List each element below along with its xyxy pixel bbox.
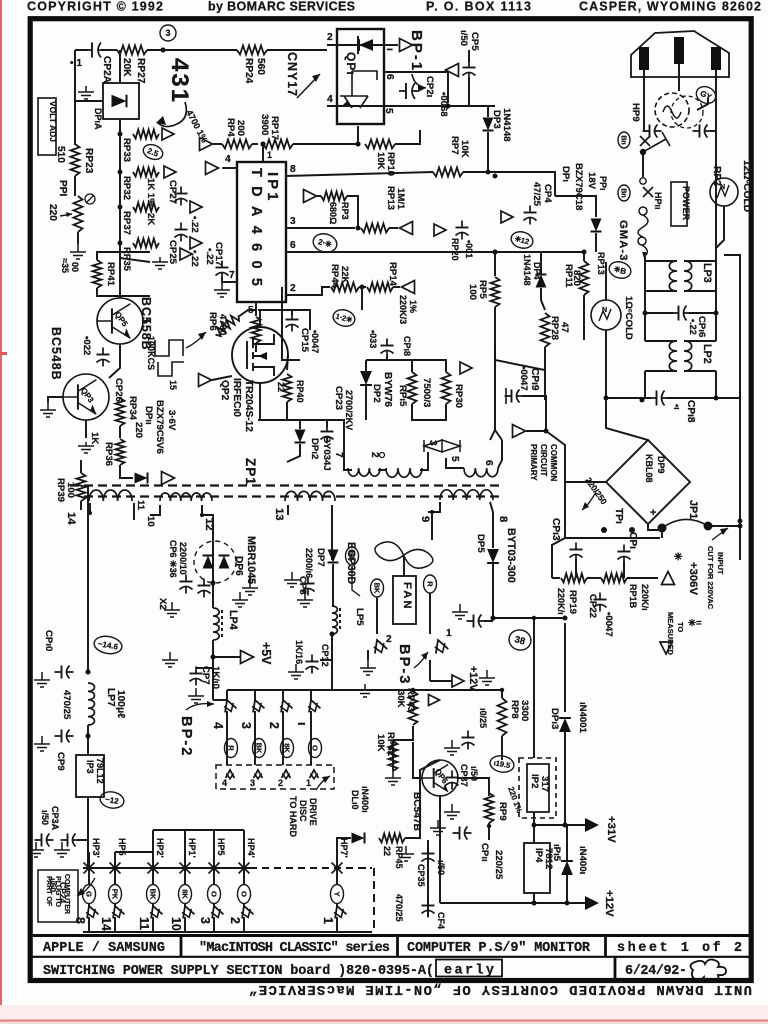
capacitor CP12 — [306, 655, 319, 674]
svg-text:GMA-3: GMA-3 — [617, 220, 629, 261]
svg-text:431: 431 — [166, 58, 193, 104]
svg-text:2: 2 — [290, 283, 296, 294]
capacitor CP15 — [286, 313, 299, 332]
node — [211, 581, 216, 586]
ground — [78, 442, 94, 453]
regulator IP3 — [76, 755, 104, 797]
balloon *12 — [509, 229, 534, 250]
wire — [114, 852, 116, 868]
ground — [28, 842, 44, 857]
phototransistor in QP1 — [340, 71, 377, 108]
bus — [227, 689, 311, 691]
wire — [644, 371, 646, 398]
connector pin BP-2 3 — [249, 698, 265, 714]
resistor RP27 — [117, 46, 147, 55]
resistor RP8 — [498, 698, 507, 736]
zener DP11 — [135, 473, 148, 484]
wire — [88, 904, 90, 906]
svg-text:LP3: LP3 — [701, 263, 713, 283]
wire — [331, 634, 333, 660]
wire — [440, 689, 502, 691]
scan edge pink band — [0, 1005, 768, 1020]
fuse link X — [643, 187, 653, 197]
resistor RP36 — [116, 439, 125, 465]
svg-text:ıN4001: ıN4001 — [577, 702, 588, 734]
hook arrow BP-2 — [186, 704, 214, 710]
svg-text:PPı: PPı — [598, 176, 608, 191]
wire — [392, 740, 394, 742]
wire — [147, 49, 237, 51]
wire — [583, 252, 585, 261]
wire — [540, 252, 542, 274]
wire — [392, 742, 394, 771]
LP4 core dash — [221, 610, 223, 638]
fuse link HP1' — [180, 863, 191, 874]
resistor RP30 — [442, 372, 451, 404]
node — [493, 174, 498, 179]
svg-text:RP8: RP8 — [509, 700, 520, 719]
pin 3 stub — [286, 227, 355, 229]
credit line (rotated) — [249, 981, 752, 997]
wire — [498, 440, 502, 468]
wire — [494, 252, 496, 276]
wire color BK — [346, 547, 359, 565]
wire — [336, 850, 338, 868]
right rail lower — [739, 526, 741, 560]
svg-text:ı/50: ı/50 — [40, 810, 50, 825]
diode DP14 — [112, 95, 127, 108]
svg-text:RP1B: RP1B — [628, 584, 638, 609]
bus top2 — [153, 829, 244, 831]
svg-text:DPı: DPı — [560, 166, 571, 182]
svg-text:10: 10 — [169, 917, 183, 931]
regulator IP4 — [524, 843, 550, 893]
resistor RP5 — [491, 277, 500, 307]
svg-text:RP23: RP23 — [83, 148, 94, 174]
node — [544, 429, 549, 434]
ladder rail — [119, 134, 121, 258]
svg-text:CNY17: CNY17 — [285, 52, 299, 97]
bus — [311, 689, 440, 691]
volt adj box — [38, 98, 56, 155]
svg-text:CP24: CP24 — [58, 882, 68, 903]
capacitor CP3A — [35, 834, 54, 847]
wire — [282, 310, 310, 330]
wire — [552, 538, 565, 578]
svg-text:+12V: +12V — [603, 890, 615, 917]
wire — [492, 512, 494, 548]
wire — [213, 830, 215, 868]
svg-text:CP12: CP12 — [320, 644, 330, 667]
led wire — [327, 44, 384, 46]
capacitor X right — [693, 125, 712, 138]
ground — [398, 846, 414, 861]
node — [714, 396, 719, 401]
wire — [715, 131, 717, 180]
svg-text:100μℓ: 100μℓ — [115, 690, 126, 718]
capacitor CP37 — [446, 771, 459, 790]
diode DP15 — [561, 861, 573, 875]
wire color 8K — [281, 739, 294, 758]
svg-text:CP6 ✳36: CP6 ✳36 — [168, 540, 178, 578]
wire — [605, 262, 607, 300]
connector pin 1 — [331, 904, 347, 920]
wire — [395, 130, 420, 144]
svg-text:BZX79C18: BZX79C18 — [573, 163, 584, 211]
svg-text:"MacINTOSH CLASSIC" series: "MacINTOSH CLASSIC" series — [199, 941, 390, 956]
ground — [444, 740, 460, 755]
wire — [623, 562, 625, 578]
svg-text:ı: ı — [384, 48, 395, 51]
wire top rail — [75, 49, 88, 51]
svg-text:1: 1 — [321, 917, 335, 924]
svg-text:N: N — [602, 307, 607, 314]
wire — [213, 143, 222, 145]
diode DP13 — [559, 718, 571, 732]
svg-text:CP23: CP23 — [333, 386, 344, 410]
pin 7 stub — [229, 281, 237, 283]
wire — [495, 345, 545, 380]
svg-text:FAN: FAN — [401, 582, 413, 611]
triangle pin1 — [400, 39, 413, 52]
svg-text:CP2ı: CP2ı — [424, 76, 435, 97]
svg-text:•.22: •.22 — [189, 216, 200, 233]
wire — [678, 64, 680, 91]
capacitor CP2A — [85, 43, 105, 58]
svg-text:LP2: LP2 — [701, 344, 713, 364]
svg-text:15: 15 — [168, 380, 178, 390]
svg-text:SWITCHING POWER SUPPLY SECTION: SWITCHING POWER SUPPLY SECTION board )82… — [43, 964, 434, 979]
wire — [606, 398, 648, 440]
regulator IP2 inner — [527, 764, 549, 812]
thermistor RP1 — [591, 300, 621, 330]
capacitor CP27 — [175, 187, 188, 206]
wire — [258, 419, 300, 421]
resistor RP35 — [133, 239, 159, 248]
wire — [724, 255, 740, 392]
wire — [143, 320, 150, 322]
connector bus — [83, 867, 250, 869]
svg-text:2: 2 — [228, 917, 242, 924]
wire — [226, 690, 228, 700]
wire — [152, 917, 154, 932]
svg-text:11: 11 — [135, 500, 146, 511]
ground — [70, 244, 86, 259]
wire — [715, 70, 717, 131]
wire — [184, 830, 186, 868]
svg-text:DISC: DISC — [298, 800, 308, 822]
LP5 core dash — [339, 608, 341, 632]
wire — [715, 313, 717, 341]
resistor RP11 — [580, 261, 589, 295]
node — [643, 311, 648, 316]
wire — [439, 796, 441, 810]
jumper JP1 right — [704, 522, 713, 531]
wire color BK — [253, 739, 266, 758]
wire — [317, 195, 321, 197]
svg-text:•.1: •.1 — [70, 58, 82, 69]
testpoint down — [660, 642, 672, 654]
wire — [282, 711, 284, 765]
arrow BP-3 — [414, 652, 428, 668]
resistor RP44 — [331, 283, 359, 292]
wire — [77, 232, 79, 244]
triangle ref — [206, 162, 219, 175]
svg-text:2K: 2K — [145, 213, 156, 225]
svg-text:BZX79C5V6: BZX79C5V6 — [154, 400, 165, 454]
wire — [310, 711, 312, 765]
wire — [293, 143, 358, 145]
svg-text:RP24: RP24 — [243, 58, 254, 84]
node — [491, 616, 496, 621]
capacitor CP6 b — [198, 579, 211, 598]
capacitor CP1 — [618, 545, 631, 564]
wire color Bn — [618, 185, 630, 201]
switch lever — [643, 132, 670, 152]
resistor RP10 — [365, 140, 395, 149]
POWER box — [671, 182, 687, 226]
svg-text:3: 3 — [239, 722, 253, 729]
ground — [385, 770, 401, 785]
connector pin 2 — [282, 770, 291, 779]
wire — [564, 482, 566, 538]
wire — [393, 286, 400, 288]
wire color Y — [331, 885, 344, 904]
node — [532, 616, 536, 620]
svg-text:79L12: 79L12 — [95, 758, 105, 784]
svg-text:TR204S-12: TR204S-12 — [243, 380, 254, 432]
svg-text:HP4': HP4' — [246, 838, 256, 858]
triangle ref — [434, 224, 446, 236]
wire — [430, 680, 452, 682]
fuse link X — [640, 136, 650, 146]
svg-text:LP7: LP7 — [105, 688, 116, 707]
svg-text:DP3: DP3 — [491, 110, 502, 129]
svg-text:IP2: IP2 — [529, 774, 540, 788]
svg-text:RP37: RP37 — [121, 211, 132, 235]
wire — [405, 810, 420, 838]
svg-text:✳: ✳ — [674, 552, 683, 563]
connector bus dashed — [250, 867, 360, 869]
resistor RP3 — [321, 192, 347, 201]
wire — [87, 725, 89, 755]
svg-text:CP4: CP4 — [542, 184, 553, 203]
wire — [133, 503, 135, 520]
wire — [378, 469, 386, 471]
wire — [88, 868, 90, 884]
svg-text:11: 11 — [137, 917, 151, 930]
svg-text:RP13: RP13 — [596, 252, 606, 275]
svg-text:•.22: •.22 — [204, 248, 215, 265]
node — [640, 398, 645, 403]
wire — [555, 196, 596, 217]
connector pin BP-2 4 — [221, 698, 237, 714]
svg-text:1ΩᶜCOLD: 1ΩᶜCOLD — [623, 296, 634, 340]
svg-text:6/24/92-: 6/24/92- — [625, 964, 687, 979]
svg-text:CASPER, WYOMING 82602: CASPER, WYOMING 82602 — [579, 0, 761, 14]
triangle ref — [180, 248, 192, 260]
wire — [488, 790, 490, 796]
wire — [522, 396, 546, 431]
svg-text:+5V: +5V — [259, 642, 273, 665]
wire — [488, 172, 555, 196]
svg-text:4: 4 — [225, 154, 231, 165]
test point TP1 b — [629, 527, 635, 533]
svg-text:CP9: CP9 — [55, 752, 66, 771]
svg-text:RP3: RP3 — [340, 202, 350, 220]
node — [563, 823, 568, 828]
wire — [196, 667, 213, 669]
svg-text:7500/3: 7500/3 — [421, 378, 432, 407]
triangle ref — [402, 281, 415, 294]
resistor RP42 — [389, 741, 398, 771]
resistor RP15 — [408, 372, 417, 404]
node — [491, 616, 496, 621]
wire color BK — [371, 579, 384, 597]
svg-text:1: 1 — [267, 150, 272, 160]
wire — [583, 310, 585, 340]
node junction — [161, 48, 166, 53]
ground — [297, 594, 313, 607]
capacitor CP35 — [422, 847, 435, 866]
pin 4 stub — [222, 167, 237, 169]
wire — [243, 904, 245, 906]
wire — [97, 252, 150, 260]
svg-text:47: 47 — [559, 322, 570, 333]
dashed wire — [373, 868, 375, 932]
svg-text:3: 3 — [250, 778, 255, 788]
arrow from 431 — [157, 102, 186, 127]
node — [118, 170, 123, 175]
node — [261, 142, 266, 147]
wire — [344, 462, 352, 470]
svg-text:TPı: TPı — [613, 508, 624, 524]
node — [738, 524, 743, 529]
connector pin 11 — [147, 904, 163, 920]
left rail — [87, 497, 89, 513]
svg-text:CP15: CP15 — [299, 328, 310, 353]
wire — [119, 50, 121, 82]
CP18 wire b — [667, 397, 716, 399]
ground — [214, 282, 230, 297]
wire — [114, 868, 116, 884]
ground — [444, 804, 460, 819]
svg-text:CPı3: CPı3 — [550, 518, 561, 541]
ground — [232, 592, 248, 607]
svg-text:9: 9 — [419, 516, 431, 522]
svg-text:2: 2 — [278, 778, 283, 788]
svg-text:BP-3: BP-3 — [396, 644, 412, 685]
wire — [552, 577, 560, 579]
wire — [331, 505, 333, 560]
wire — [393, 726, 413, 740]
wire — [287, 355, 288, 370]
wire — [715, 371, 717, 398]
left choke rail — [644, 252, 646, 313]
wire — [376, 597, 378, 634]
svg-text:20K: 20K — [121, 58, 132, 77]
signature scribble — [690, 960, 726, 982]
capacitor CP20 — [456, 221, 469, 240]
svg-text:8K: 8K — [180, 889, 189, 899]
svg-text:3: 3 — [165, 28, 170, 38]
capacitor CP9 — [55, 730, 74, 743]
svg-text:680Ω: 680Ω — [328, 202, 338, 224]
output arrow +31V — [585, 818, 599, 832]
node — [211, 581, 216, 586]
svg-text:PPI: PPI — [57, 180, 68, 197]
svg-text:470/25: 470/25 — [61, 690, 72, 720]
svg-text:RP13: RP13 — [385, 186, 396, 210]
resistor RP37 — [133, 203, 159, 212]
svg-text:CP3A: CP3A — [50, 806, 60, 831]
wire — [222, 278, 229, 282]
svg-text:UNIT DRAWN PROVIDED COURTESY O: UNIT DRAWN PROVIDED COURTESY OF „ON-TIME… — [249, 981, 752, 997]
wire — [645, 260, 677, 262]
resistor RP45 — [379, 834, 405, 843]
wire — [645, 290, 677, 292]
capacitor X left — [643, 125, 662, 138]
svg-text:4700: 4700 — [217, 314, 228, 335]
inductor LP7 — [88, 683, 94, 725]
wire — [336, 904, 338, 906]
wire — [249, 576, 251, 582]
wire — [120, 258, 150, 262]
svg-text:1K/ı0: 1K/ı0 — [210, 666, 221, 689]
wire — [243, 917, 245, 932]
primary coil 5-6 — [464, 468, 498, 477]
svg-text:RP34: RP34 — [127, 396, 138, 421]
svg-text:RP44: RP44 — [329, 264, 340, 289]
wire — [661, 528, 663, 538]
svg-text:HP1': HP1' — [187, 838, 197, 858]
svg-text:RP9: RP9 — [497, 802, 508, 821]
wire — [708, 525, 740, 527]
svg-text:BP-1: BP-1 — [408, 30, 425, 72]
wire — [493, 617, 565, 619]
svg-text:LP4: LP4 — [227, 610, 239, 630]
wire — [243, 830, 245, 868]
diode DP6 b — [219, 556, 230, 569]
wire — [643, 252, 645, 258]
squarewave symbol — [155, 340, 184, 376]
svg-text:COPYRIGHT © 1992: COPYRIGHT © 1992 — [27, 0, 163, 14]
svg-text:+: + — [650, 507, 656, 519]
test point TP1 a — [601, 527, 607, 533]
triangle ref — [304, 190, 317, 203]
svg-text:by BOMARC SERVICES: by BOMARC SERVICES — [208, 0, 355, 14]
wire left rail — [74, 50, 76, 145]
wire color 8K — [179, 885, 192, 904]
node — [211, 655, 216, 660]
node — [500, 688, 504, 692]
wire color R — [424, 575, 437, 593]
node — [640, 149, 646, 155]
svg-text:13: 13 — [273, 508, 285, 521]
svg-text:18V: 18V — [586, 172, 597, 190]
resistor RP18 — [601, 574, 627, 583]
resistor RP39 — [77, 473, 86, 501]
svg-text:3: 3 — [198, 917, 212, 924]
wire — [716, 206, 724, 248]
triangle primary common — [513, 425, 526, 438]
BP-2 dashed box — [216, 765, 334, 789]
svg-text:R: R — [425, 581, 434, 587]
svg-text:2200/10: 2200/10 — [178, 542, 188, 575]
svg-text:MBR1045: MBR1045 — [245, 536, 257, 584]
balloon GY — [694, 84, 719, 107]
svg-text:RP14: RP14 — [387, 262, 398, 287]
